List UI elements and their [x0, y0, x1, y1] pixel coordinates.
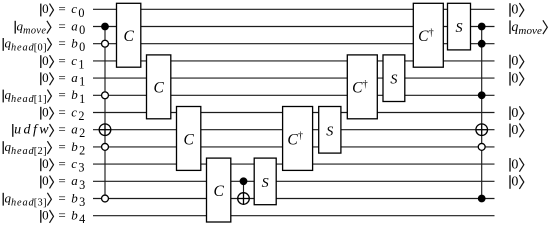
svg-text:C: C — [213, 183, 224, 200]
svg-text:b: b — [71, 36, 78, 51]
svg-text:1: 1 — [79, 75, 85, 89]
svg-text:c: c — [71, 53, 77, 68]
svg-text:a: a — [71, 18, 78, 33]
svg-text:0: 0 — [42, 156, 49, 171]
svg-text:=: = — [58, 190, 65, 205]
svg-text:0: 0 — [78, 6, 84, 20]
svg-text:0: 0 — [511, 123, 518, 138]
svg-text:S: S — [390, 72, 397, 88]
svg-text:0: 0 — [511, 71, 518, 86]
svg-text:3: 3 — [78, 161, 84, 175]
svg-text:0: 0 — [511, 3, 518, 18]
svg-text:†: † — [298, 131, 303, 142]
svg-text:0: 0 — [42, 173, 49, 188]
svg-text:2: 2 — [78, 109, 84, 123]
svg-text:b: b — [71, 190, 78, 205]
svg-text:a: a — [71, 122, 78, 137]
svg-text:0: 0 — [511, 175, 518, 190]
svg-text:C: C — [153, 80, 164, 97]
svg-text:0: 0 — [42, 1, 49, 16]
svg-text:0: 0 — [511, 106, 518, 121]
svg-text:=: = — [58, 156, 65, 171]
svg-text:b: b — [71, 139, 78, 154]
svg-text:S: S — [455, 20, 462, 36]
svg-text:0: 0 — [42, 53, 49, 68]
svg-text:S: S — [262, 175, 269, 191]
svg-text:4: 4 — [79, 212, 85, 226]
svg-text:S: S — [326, 123, 333, 139]
svg-text:b: b — [71, 87, 78, 102]
svg-text:head: head — [11, 197, 35, 208]
svg-text:C: C — [352, 80, 363, 97]
svg-text:0: 0 — [42, 70, 49, 85]
svg-text:3: 3 — [79, 178, 85, 192]
svg-text:0: 0 — [42, 208, 49, 223]
svg-text:0: 0 — [79, 23, 85, 37]
svg-text:q: q — [511, 20, 518, 35]
svg-text:move: move — [518, 25, 542, 37]
svg-text:=: = — [58, 18, 65, 33]
svg-text:C: C — [123, 28, 134, 45]
svg-text:=: = — [58, 104, 65, 119]
svg-text:c: c — [71, 156, 77, 171]
svg-text:=: = — [58, 53, 65, 68]
svg-text:C: C — [183, 131, 194, 148]
svg-text:=: = — [58, 87, 65, 102]
svg-text:0: 0 — [511, 157, 518, 172]
svg-text:=: = — [58, 208, 65, 223]
svg-text:a: a — [71, 173, 78, 188]
svg-text:move: move — [23, 25, 46, 36]
svg-text:b: b — [71, 208, 78, 223]
svg-text:0: 0 — [511, 54, 518, 69]
svg-text:=: = — [58, 122, 65, 137]
svg-text:head: head — [11, 43, 35, 54]
svg-text:=: = — [58, 173, 65, 188]
svg-text:head: head — [11, 146, 35, 157]
svg-text:=: = — [58, 1, 65, 16]
svg-text:=: = — [58, 36, 65, 51]
svg-text:2: 2 — [79, 126, 85, 140]
svg-text:c: c — [71, 104, 77, 119]
svg-text:C: C — [418, 28, 429, 45]
svg-text:head: head — [11, 94, 35, 105]
svg-text:a: a — [71, 70, 78, 85]
svg-text:C: C — [287, 131, 298, 148]
svg-text:1: 1 — [78, 57, 84, 71]
svg-text:3: 3 — [79, 195, 85, 209]
svg-text:1: 1 — [79, 92, 85, 106]
svg-text:=: = — [58, 70, 65, 85]
svg-text:c: c — [71, 1, 77, 16]
svg-text:†: † — [429, 27, 434, 38]
svg-text:=: = — [58, 139, 65, 154]
svg-text:0: 0 — [79, 40, 85, 54]
svg-text:0: 0 — [42, 104, 49, 119]
svg-text:†: † — [363, 79, 368, 90]
svg-text:2: 2 — [79, 143, 85, 157]
